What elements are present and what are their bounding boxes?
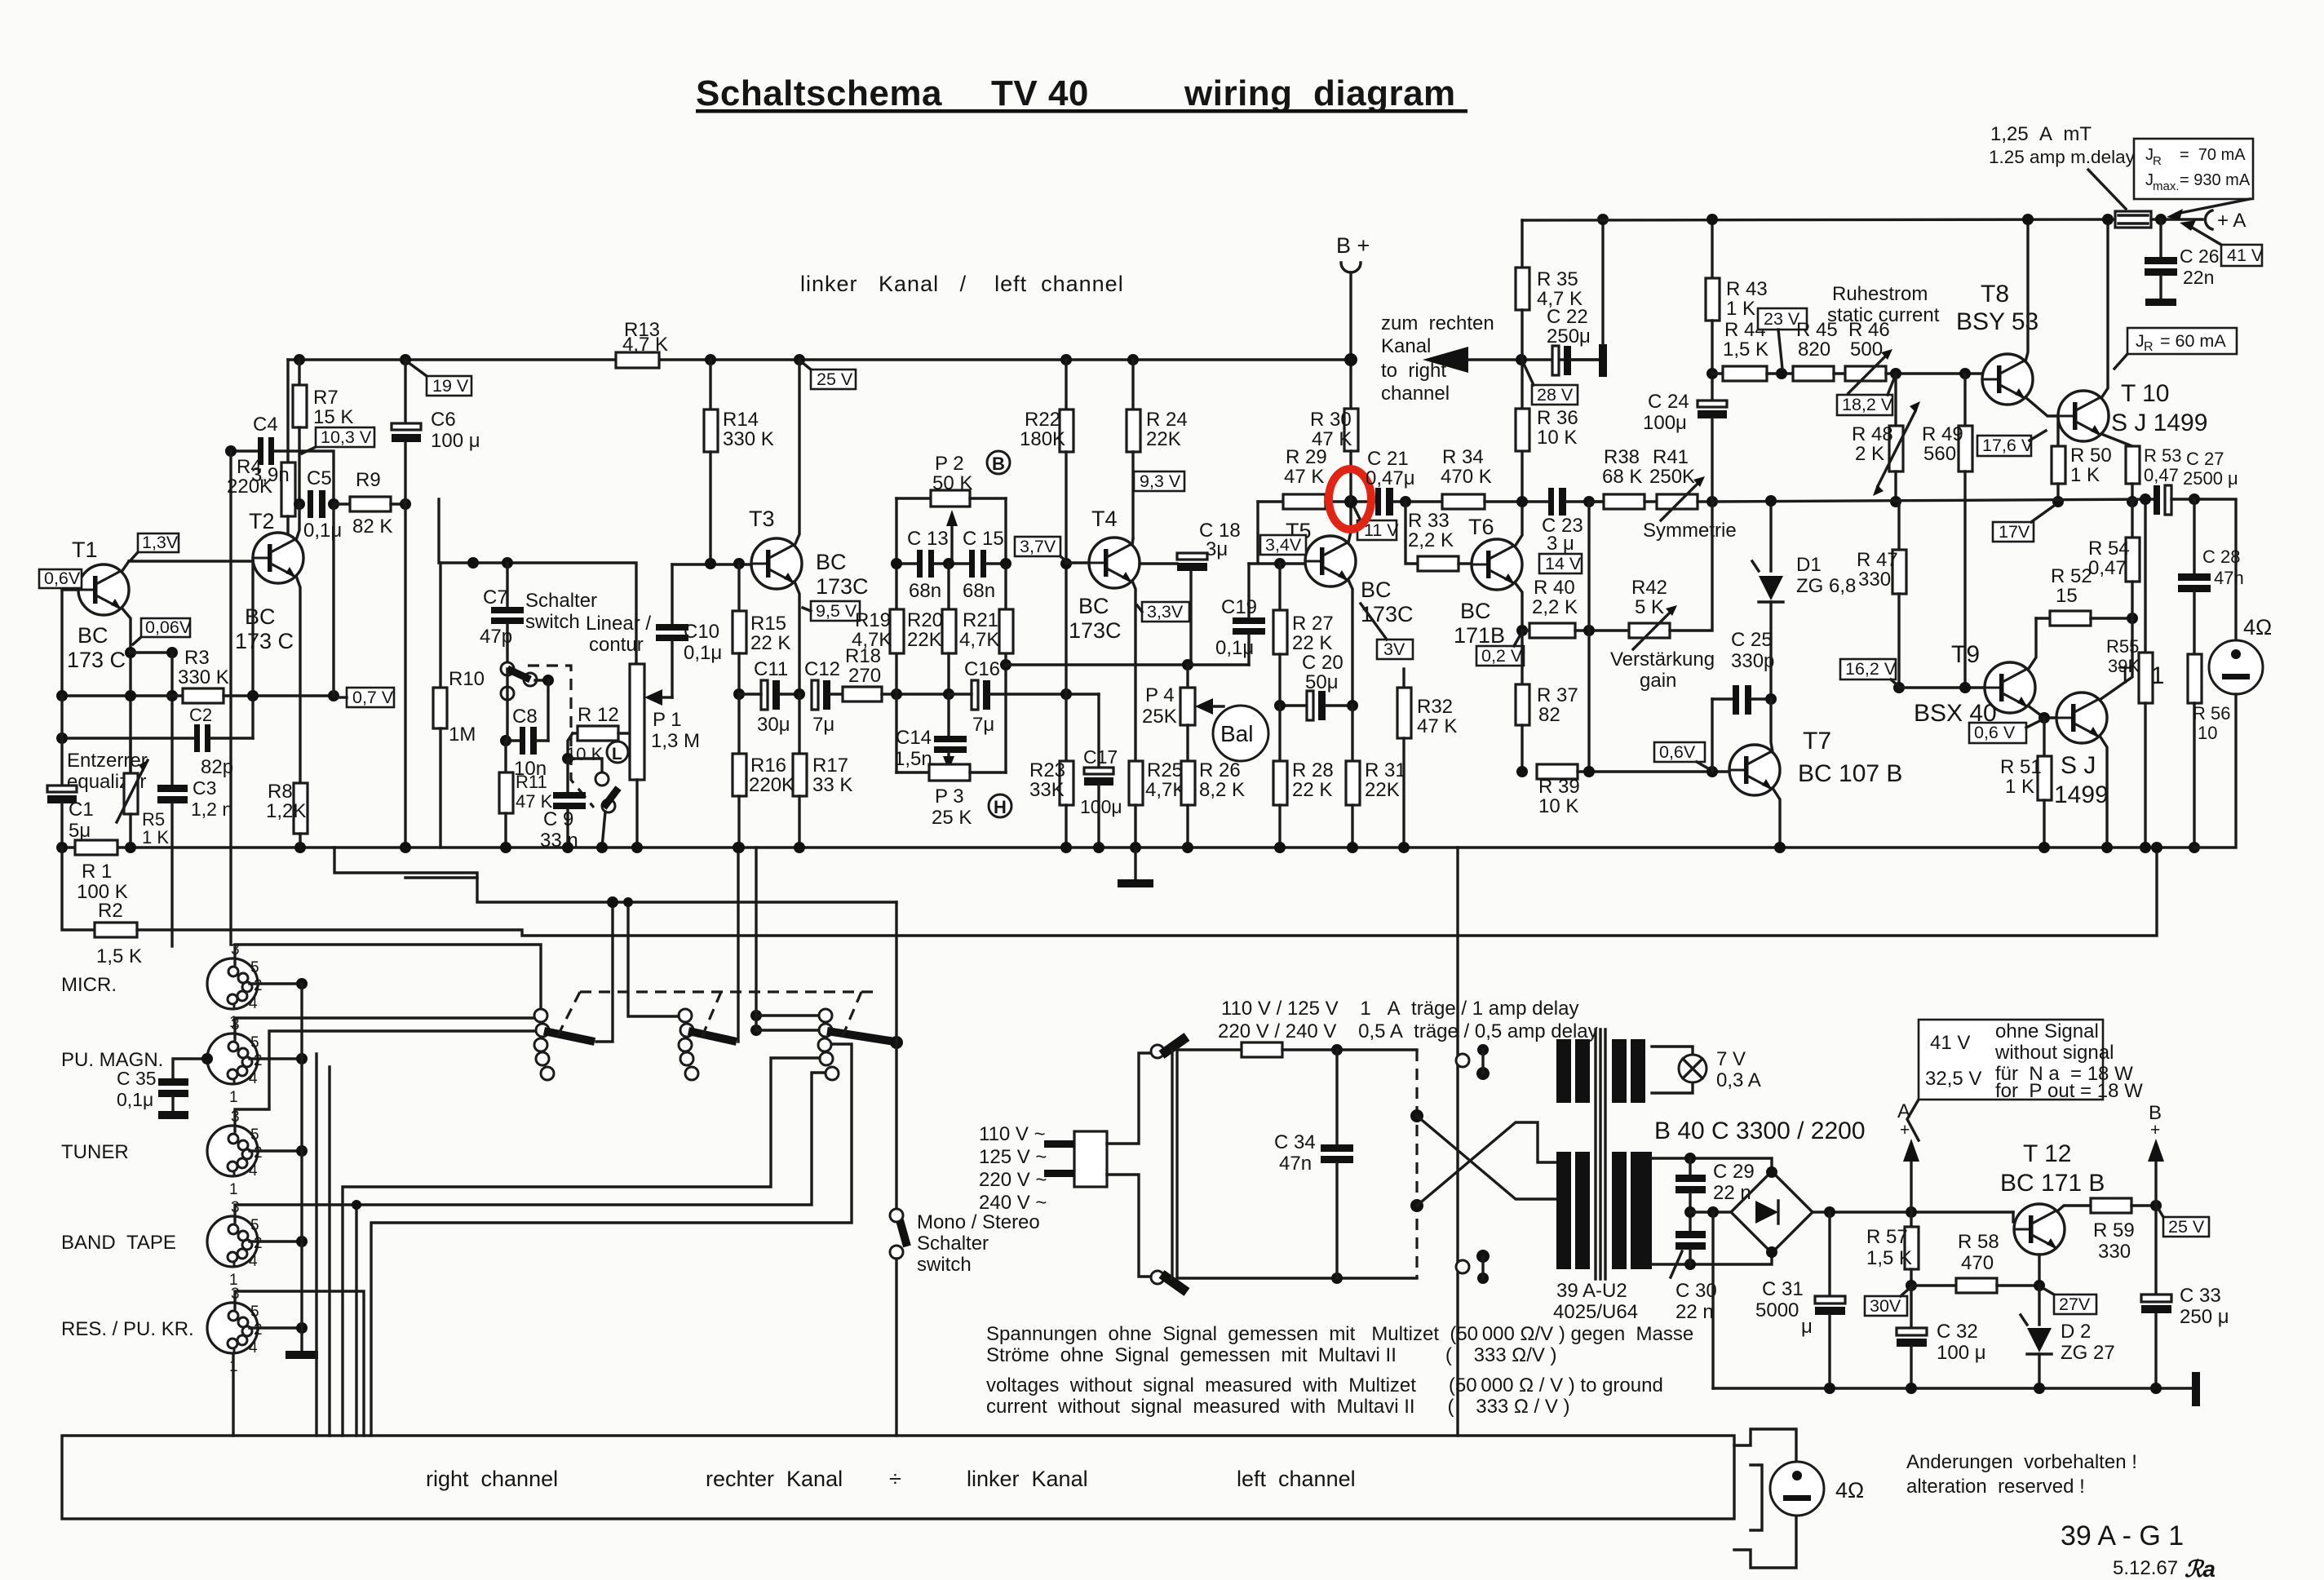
transistor T8 BSY53 [1982, 354, 2033, 405]
ground bus of connectors [250, 982, 302, 985]
node base R14/R15 [705, 558, 716, 569]
output connector 4ohm [1734, 1429, 1796, 1568]
connector PU.MAGN [207, 1016, 263, 1106]
svg-text:C 33: C 33 [2180, 1285, 2221, 1307]
node T5 collector [1344, 495, 1357, 508]
svg-text:39 A-U2: 39 A-U2 [1556, 1280, 1627, 1302]
node C20 right [1347, 700, 1358, 711]
connector TUNER [207, 1109, 263, 1198]
capacitor C25 330p [1712, 697, 1733, 700]
capacitor C8 10n [506, 739, 520, 741]
label 10,3V [302, 427, 374, 454]
T5 collector line: R29 C21 [1258, 500, 1283, 502]
resistor R25 4,7K [1129, 761, 1143, 805]
svg-text:125 V ~: 125 V ~ [979, 1146, 1047, 1168]
svg-text:R 1: R 1 [82, 861, 112, 883]
circled L [607, 741, 628, 763]
svg-text:0,1μ: 0,1μ [117, 1089, 153, 1110]
node base R15 [733, 558, 745, 569]
wire rail end up [2194, 694, 2236, 848]
svg-text:T8: T8 [1981, 281, 2009, 308]
switch selector 1 [534, 1009, 547, 1022]
transformer primary winding top [1556, 1039, 1571, 1103]
wire T11 collector [2100, 618, 2132, 700]
svg-text:R11: R11 [516, 772, 547, 792]
node R55 top [2140, 493, 2151, 505]
potentiometer P4 25K balance [1182, 659, 1193, 671]
label 17V [1993, 506, 2054, 542]
label 25V [802, 362, 856, 389]
resistor R54 0,47 [2131, 502, 2133, 538]
svg-text:5000: 5000 [1755, 1299, 1799, 1321]
svg-text:7μ: 7μ [812, 714, 834, 736]
circle Bal [1213, 706, 1268, 761]
switch L lower [595, 772, 609, 786]
fuse line top [1177, 1048, 1242, 1051]
svg-text:BC 171 B: BC 171 B [2000, 1170, 2105, 1197]
resistor R4 220K [286, 360, 289, 462]
svg-text:R 52: R 52 [2051, 565, 2092, 587]
label 14V [1539, 554, 1582, 573]
svg-text:C19: C19 [1221, 596, 1257, 618]
capacitor C2 82p [62, 737, 194, 739]
svg-text:171B: 171B [1454, 623, 1505, 648]
resistor R49 560 [1963, 374, 1966, 426]
svg-text:C12: C12 [804, 658, 840, 680]
svg-text:100 μ: 100 μ [431, 430, 480, 452]
svg-text:32,5 V: 32,5 V [1925, 1068, 1981, 1090]
wire T7 collector [1771, 699, 1773, 752]
capacitor C4 3,9n [231, 449, 258, 452]
wire PU.MAGN pin3 [235, 1018, 541, 1038]
wire T12 emitter [2038, 1255, 2040, 1286]
svg-text:25K: 25K [1142, 706, 1177, 728]
node T4 base [1060, 558, 1072, 569]
capacitor C19 0,1u [1247, 564, 1250, 617]
node rail R8 [294, 842, 306, 853]
svg-text:330: 330 [2098, 1241, 2131, 1263]
svg-text:C 34: C 34 [1274, 1131, 1316, 1153]
capacitor C5 0,1u [308, 490, 313, 518]
resistor R35 4,7K [1521, 220, 1523, 268]
wire T1 emitter down [122, 608, 131, 773]
svg-text:23 V: 23 V [1764, 309, 1800, 329]
DC output wire [1813, 1210, 2013, 1213]
label 0,6 V T11 [1969, 721, 2039, 743]
svg-text:22K: 22K [907, 629, 942, 651]
node C34 top [1331, 1044, 1343, 1056]
svg-text:1,5n: 1,5n [894, 748, 932, 770]
wire R29 left drop to base line [1256, 502, 1259, 561]
svg-text:17V: 17V [1999, 522, 2030, 542]
svg-text:C 13: C 13 [907, 528, 949, 550]
svg-text:C 30: C 30 [1675, 1280, 1717, 1302]
tone net left rail [895, 498, 897, 772]
wire T10 collector [2101, 219, 2108, 398]
svg-text:33K: 33K [1029, 779, 1065, 801]
svg-text:19 V: 19 V [432, 376, 469, 396]
svg-text:68n: 68n [909, 580, 941, 602]
resistor R52 15 [2036, 617, 2050, 619]
capacitor C6 100u electrolytic [404, 360, 406, 423]
transistor T2 BC173C [253, 533, 303, 583]
svg-text:5μ: 5μ [69, 820, 91, 842]
wire T3 base from C10 [672, 563, 751, 565]
node R39 right [1583, 766, 1595, 777]
capacitor C26 22n [2159, 219, 2162, 257]
transistor T3 BC173C [751, 538, 802, 589]
line from preamp to switch bank [334, 848, 896, 902]
svg-text:R3: R3 [184, 647, 210, 669]
label 19V [408, 362, 471, 396]
wire T12 collector [2057, 1206, 2091, 1211]
svg-text:R55: R55 [2106, 636, 2139, 657]
svg-text:2 K: 2 K [1855, 443, 1884, 465]
node R46 out [1890, 368, 1901, 379]
svg-text:22 K: 22 K [1292, 632, 1332, 654]
svg-text:= 930 mA: = 930 mA [2180, 171, 2251, 189]
svg-text:47 K: 47 K [1417, 715, 1457, 737]
svg-text:R 12: R 12 [578, 704, 619, 726]
transistor T6 BC171B [1472, 539, 1522, 590]
svg-text:alteration reserved !: alteration reserved ! [1906, 1476, 2085, 1498]
svg-text:8,2 K: 8,2 K [1199, 779, 1245, 801]
svg-text:T4: T4 [1091, 507, 1118, 531]
svg-text:2500 μ: 2500 μ [2183, 468, 2238, 489]
svg-text:9,5 V: 9,5 V [816, 601, 857, 621]
svg-text:173 C: 173 C [67, 648, 126, 672]
svg-text:R41: R41 [1653, 446, 1689, 468]
svg-text:C3: C3 [193, 777, 216, 799]
svg-text:voltages without signal mea: voltages without signal measured with Mu… [986, 1374, 1663, 1396]
svg-text:R 36: R 36 [1537, 407, 1578, 429]
svg-text:33 K: 33 K [812, 774, 852, 796]
capacitor C7 47p [506, 563, 508, 607]
label 0,6V [39, 569, 82, 588]
Mono/Stereo switch [890, 1209, 903, 1222]
svg-text:82: 82 [1538, 704, 1560, 726]
svg-text:BAND TAPE: BAND TAPE [61, 1232, 176, 1254]
svg-text:560: 560 [1923, 443, 1956, 465]
wire T1 collector up [122, 561, 129, 572]
svg-text:270: 270 [848, 665, 881, 687]
svg-text:linker Kanal / left ch: linker Kanal / left channel [800, 272, 1124, 296]
node rail R32 [1398, 842, 1410, 853]
connector MICR [207, 941, 263, 1031]
potentiometer P3 25K [896, 771, 929, 773]
svg-text:TV 40: TV 40 [991, 73, 1089, 113]
svg-text:R 56: R 56 [2193, 703, 2230, 724]
label 27V [2044, 1289, 2096, 1314]
svg-text:110 V ~: 110 V ~ [979, 1123, 1046, 1145]
right channel big box [62, 1436, 1734, 1519]
ground symbol [1134, 848, 1136, 879]
resistor R20 22K [947, 564, 950, 609]
svg-text:3,3V: 3,3V [1147, 602, 1184, 622]
label 0,7V [338, 688, 394, 707]
svg-text:right channel: right channel [426, 1467, 558, 1491]
svg-text:R 51: R 51 [2000, 756, 2042, 778]
svg-text:1,5 K: 1,5 K [1866, 1247, 1912, 1269]
capacitor C27 2500u [2154, 485, 2160, 515]
resistor R24 22K [1131, 360, 1134, 409]
svg-text:C 31: C 31 [1762, 1278, 1804, 1300]
capacitor C28 47n [2193, 499, 2195, 573]
P3 wiper arrow [947, 753, 950, 759]
svg-text:R 30: R 30 [1310, 409, 1352, 431]
resistor R43 1K [1711, 219, 1713, 278]
switch selector 2 [679, 1009, 692, 1022]
svg-text:C8: C8 [512, 706, 538, 728]
node C3-R3 row [166, 690, 178, 701]
svg-text:C2: C2 [189, 705, 212, 725]
svg-text:17,6 V: 17,6 V [1982, 436, 2034, 455]
wire T1 base column down to input [60, 590, 63, 696]
svg-text:25 V: 25 V [817, 370, 853, 389]
svg-text:C 35: C 35 [117, 1068, 157, 1089]
svg-text:330p: 330p [1731, 650, 1774, 672]
resistor R56 10 [2188, 654, 2202, 703]
resistor R32 47K [1402, 669, 1405, 688]
node C2 left [56, 732, 68, 744]
node R36 bottom [1516, 496, 1528, 507]
svg-text:820: 820 [1798, 339, 1830, 361]
label 41V [2180, 220, 2264, 266]
zener diode D1 ZG6,8 [1769, 502, 1772, 571]
node bus-R24 [1127, 354, 1139, 365]
svg-text:wiring diagram: wiring diagram [1184, 73, 1456, 113]
node 27V [2034, 1280, 2045, 1291]
node R48 bottom [1890, 496, 1901, 507]
label 0,2V [1476, 635, 1524, 666]
resistor R58 470 [1911, 1284, 1956, 1286]
resistor R14 330K [709, 360, 711, 409]
terminal A arrow [1910, 1158, 1912, 1212]
svg-text:330 K: 330 K [723, 428, 774, 450]
svg-text:Kanal: Kanal [1381, 335, 1431, 357]
svg-text:30μ: 30μ [757, 714, 790, 736]
svg-text:R 47: R 47 [1857, 549, 1898, 571]
svg-text:1 K: 1 K [2005, 776, 2034, 798]
node C16 line right [1060, 688, 1072, 700]
svg-text:1,2 n: 1,2 n [191, 799, 232, 820]
svg-text:4Ω: 4Ω [1835, 1478, 1864, 1503]
wire top link line [439, 499, 636, 664]
node bus-T3coll [794, 354, 805, 365]
label 16,2V [1840, 659, 1897, 685]
svg-text:switch: switch [525, 611, 580, 633]
svg-text:0,7 V: 0,7 V [352, 688, 394, 707]
label 3,3V [1137, 602, 1189, 622]
capacitor C16 7u [972, 680, 978, 710]
svg-text:Ströme ohne Signal gemessen: Ströme ohne Signal gemessen mit Multavi … [986, 1344, 1557, 1366]
svg-text:100μ: 100μ [1080, 796, 1122, 817]
svg-text:C14: C14 [896, 727, 932, 749]
power ground rail [1713, 1387, 2196, 1389]
capacitor C11 30u [761, 680, 768, 710]
svg-text:7μ: 7μ [972, 714, 994, 736]
svg-text:R 31: R 31 [1365, 759, 1406, 781]
svg-text:C6: C6 [431, 409, 456, 431]
resistor R7 15K [298, 360, 300, 385]
resistor R28 22K [1278, 706, 1281, 761]
svg-text:R15: R15 [750, 613, 786, 635]
svg-text:1499: 1499 [2054, 781, 2109, 808]
svg-text:C 24: C 24 [1648, 391, 1689, 413]
svg-text:173C: 173C [1069, 618, 1122, 643]
node right rail tap [1000, 659, 1011, 671]
node rail T11 [2101, 842, 2113, 853]
resistor R2 1,5K feedback [62, 848, 95, 930]
resistor R44 1,5K [1712, 372, 1723, 374]
svg-text:C 32: C 32 [1937, 1321, 1978, 1343]
node C4 left [225, 445, 237, 457]
svg-text:B 40 C 3300 / 2200: B 40 C 3300 / 2200 [1654, 1118, 1866, 1144]
potentiometer R46 500 [1845, 366, 1886, 381]
svg-text:R16: R16 [750, 755, 786, 777]
capacitor C3 1,2n [170, 653, 173, 785]
svg-text:15: 15 [2056, 585, 2078, 607]
node bus-R7 [294, 354, 305, 365]
node rail T8coll [2022, 214, 2034, 225]
svg-text:μ: μ [1801, 1316, 1813, 1338]
transistor T1 BC173C [78, 564, 129, 615]
resistor R18 270 [830, 693, 843, 695]
wire T5 base line [1249, 562, 1305, 564]
svg-text:C16: C16 [964, 658, 1000, 680]
switch selector 3 [819, 1009, 832, 1022]
svg-text:1 K: 1 K [2070, 464, 2100, 486]
resistor R12 10K [573, 732, 578, 734]
svg-text:Symmetrie: Symmetrie [1643, 520, 1737, 542]
svg-text:68 K: 68 K [1602, 466, 1642, 488]
svg-text:25 V: 25 V [2168, 1217, 2205, 1237]
node D1 top [1765, 495, 1777, 507]
info box 41V 32,5V [1919, 1020, 2143, 1102]
node T1 emitter row left [125, 647, 136, 658]
svg-text:0,2 V: 0,2 V [1481, 646, 1523, 666]
node C5 left [294, 498, 305, 510]
svg-text:110 V / 125 V 1 A träge: 110 V / 125 V 1 A träge / 1 amp delay [1221, 998, 1578, 1020]
node T9 base row [1893, 682, 1905, 693]
resistor R29 47K [1283, 494, 1326, 509]
svg-text:BC: BC [77, 623, 108, 648]
svg-text:R 34: R 34 [1442, 446, 1484, 468]
svg-text:L: L [612, 745, 622, 763]
svg-text:5.12.67: 5.12.67 [2113, 1557, 2178, 1579]
svg-text:1 K: 1 K [1726, 298, 1755, 320]
wire T2 collector up [296, 504, 299, 540]
node link1 [467, 557, 479, 569]
svg-text:41 V: 41 V [2227, 246, 2264, 265]
svg-text:R 37: R 37 [1537, 684, 1578, 706]
svg-text:R 27: R 27 [1292, 613, 1334, 635]
svg-text:14 V: 14 V [1545, 554, 1582, 573]
wire T6 emitter [1515, 582, 1522, 631]
svg-text:1,5 K: 1,5 K [1723, 339, 1768, 361]
svg-text:current without signal meas: current without signal measured with Mul… [986, 1396, 1570, 1418]
node 30V [1906, 1280, 1917, 1291]
svg-text:0,47μ: 0,47μ [1366, 467, 1415, 489]
svg-text:470: 470 [1961, 1252, 1994, 1274]
svg-text:R32: R32 [1417, 696, 1453, 718]
svg-text:C 9: C 9 [543, 808, 573, 830]
transformer secondary lamp winding [1612, 1039, 1627, 1103]
resistor R15 22K [737, 564, 740, 611]
svg-text:220 V ~: 220 V ~ [979, 1169, 1047, 1191]
wire T11 emitter [2100, 736, 2107, 848]
capacitor C17 100u [1097, 694, 1100, 768]
svg-text:1,3 M: 1,3 M [651, 730, 700, 752]
label 11V [1354, 507, 1399, 540]
wire net to P4/C18 [1006, 663, 1188, 666]
wire RES pin3 loom [235, 1291, 364, 1436]
svg-text:without signal: without signal [1994, 1042, 2114, 1064]
resistor R47 330 [1897, 502, 1900, 550]
wire emitter row [131, 651, 172, 653]
svg-text:1.25 amp m.delay: 1.25 amp m.delay [1989, 147, 2136, 167]
wire T5 collector to node [1348, 502, 1351, 542]
svg-text:25 K: 25 K [932, 807, 972, 829]
svg-text:47n: 47n [2214, 568, 2244, 588]
potentiometer R41 250K [1657, 494, 1698, 509]
wire T3 emitter [795, 582, 799, 694]
svg-text:T 12: T 12 [2023, 1140, 2072, 1167]
tone net right rail [1004, 498, 1007, 772]
node rail R31 [1347, 842, 1358, 853]
svg-text:R 35: R 35 [1537, 268, 1578, 290]
svg-text:50μ: 50μ [1305, 671, 1339, 693]
svg-text:173C: 173C [816, 574, 869, 599]
transistor T4 BC173C [1089, 538, 1140, 588]
svg-text:0,1μ: 0,1μ [1215, 637, 1254, 659]
potentiometer R42 5K [1629, 623, 1670, 638]
node R3 right [328, 690, 339, 701]
svg-text:22K: 22K [1365, 779, 1400, 801]
wire T1 base [62, 588, 78, 591]
node R39 left [1516, 766, 1528, 777]
svg-text:BC: BC [1078, 594, 1109, 618]
svg-text:0,47: 0,47 [2088, 557, 2127, 579]
svg-text:1M: 1M [449, 724, 476, 746]
svg-text:47p: 47p [480, 626, 512, 648]
svg-text:R 24: R 24 [1146, 409, 1188, 431]
svg-text:channel: channel [1381, 383, 1450, 405]
top supply rail [1522, 219, 2115, 220]
svg-text:3,4V: 3,4V [1265, 535, 1302, 555]
vertical mono line [895, 902, 897, 1208]
label 25V [2158, 1209, 2209, 1237]
wire to L switch [568, 759, 602, 773]
P2 wiper arrow [950, 522, 953, 564]
svg-text:MICR.: MICR. [61, 974, 117, 996]
svg-text:R23: R23 [1029, 759, 1065, 781]
svg-text:gain: gain [1640, 670, 1676, 692]
node T5 base R27 [1274, 558, 1286, 569]
node rail R26 [1182, 842, 1193, 853]
wire T7 emitter [1773, 788, 1780, 848]
svg-text:R 43: R 43 [1726, 278, 1768, 300]
svg-text:5 K: 5 K [1635, 596, 1664, 618]
svg-text:R 39: R 39 [1538, 776, 1580, 798]
node C11 right [794, 688, 805, 700]
transistor T5 BC173C [1305, 536, 1356, 586]
svg-text:240 V ~: 240 V ~ [979, 1192, 1047, 1214]
svg-text:TUNER: TUNER [61, 1141, 129, 1163]
label 3,4V [1260, 535, 1306, 555]
wire T4 collector [1132, 538, 1133, 545]
svg-text:S J 1499: S J 1499 [2111, 409, 2207, 436]
